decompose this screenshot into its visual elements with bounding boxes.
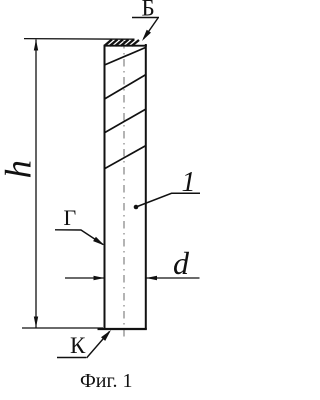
rod 1 left edge (104, 45, 106, 330)
h dimension line (35, 40, 37, 328)
d dimension right arrowhead (146, 276, 157, 280)
top face band back line (merges with h extension line) (24, 38, 135, 41)
K underline (57, 357, 86, 359)
h dimension top arrowhead (34, 40, 38, 51)
svg-text:1: 1 (182, 167, 196, 198)
part reference dot (134, 205, 139, 210)
body hatch line 3 (104, 109, 146, 133)
rod 1 bottom edge (98, 328, 147, 330)
rod 1 top edge (104, 45, 147, 47)
K leader line (87, 332, 110, 359)
B leader line (144, 18, 159, 39)
d dimension left segment (65, 277, 104, 279)
svg-text:К: К (70, 333, 86, 358)
G arrowhead (93, 237, 104, 246)
B arrowhead (142, 30, 151, 41)
body hatch line 4 (104, 146, 146, 170)
svg-text:Г: Г (64, 205, 77, 230)
top face hatch strokes (104, 39, 139, 46)
svg-text:Фиг. 1: Фиг. 1 (80, 370, 132, 392)
bottom extension line (22, 327, 103, 329)
body hatch line 1 (105, 48, 146, 66)
B underline (132, 17, 159, 19)
part 1 leader line (136, 193, 200, 207)
body hatch line 2 (105, 75, 147, 100)
K arrowhead (101, 330, 111, 341)
svg-text:h: h (0, 160, 40, 179)
d dimension right segment (146, 277, 200, 279)
centerline (axis of rod) (123, 41, 125, 337)
G leader line (55, 230, 103, 245)
rod 1 right edge (145, 44, 147, 330)
d dimension left arrowhead (94, 276, 105, 280)
h dimension bottom arrowhead (34, 317, 38, 328)
svg-text:d: d (173, 245, 190, 281)
